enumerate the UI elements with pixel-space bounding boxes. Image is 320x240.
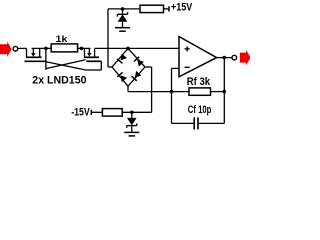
transistor Q1 gate bar — [25, 60, 46, 62]
wire bridge right — [145, 66, 152, 68]
node: source/gate junction left — [44, 47, 48, 51]
wire bridge right vertical — [151, 67, 153, 112]
wire resistor to bridge-right line — [122, 111, 151, 113]
input signal arrow (red) — [0, 41, 12, 57]
transistor Q2 source stub — [84, 48, 86, 57]
-15V terminal tick — [90, 110, 92, 115]
wire op-amp output — [217, 57, 232, 59]
bridge edge bottom-right — [128, 67, 145, 86]
ground (top clamp) — [115, 27, 130, 29]
input terminal — [13, 46, 18, 51]
wire bridge bottom stub — [127, 86, 129, 91]
bridge edge top-left — [112, 48, 128, 67]
node: source/gate junction right — [80, 47, 84, 51]
node: output — [223, 56, 227, 60]
bridge diode D3 (bottom-left) — [117, 72, 127, 82]
wire Q1 source to R 1k — [32, 47, 52, 49]
transistor Q1 drain corner — [26, 48, 28, 57]
ground (bottom clamp) — [124, 131, 139, 133]
bridge diode D2 (top-right) — [134, 57, 144, 67]
zener diode bottom — [131, 112, 133, 118]
svg-text:Cf 10p: Cf 10p — [188, 104, 212, 116]
svg-text:+15V: +15V — [171, 2, 193, 14]
wire clamp top horizontal — [108, 8, 140, 10]
node: zener bottom junction — [130, 111, 134, 115]
zener diode top — [122, 9, 124, 14]
bridge diode D4 (bottom-right) — [132, 71, 142, 81]
wire cross-coupling diagonal B — [46, 60, 86, 69]
bridge edge top-right — [128, 48, 145, 67]
resistor from -15V — [102, 109, 122, 117]
bridge diode D1 (top-left) — [117, 54, 127, 64]
resistor 1k — [51, 44, 77, 52]
wire inverting input jog — [172, 67, 180, 69]
bridge edge bottom-left — [112, 67, 128, 86]
node: inverting input junction — [170, 90, 174, 94]
svg-text:1k: 1k — [56, 34, 68, 45]
op-amp + label — [185, 48, 190, 50]
output terminal — [232, 55, 237, 60]
output signal arrow (red) — [240, 50, 251, 66]
resistor Rf 3k — [189, 88, 211, 95]
transistor Q2 drain corner — [94, 48, 96, 57]
wire resistor to +15V terminal — [164, 8, 169, 10]
svg-text:-15V: -15V — [71, 107, 90, 119]
wire bridge left to clamp line — [108, 66, 112, 68]
op-amp U1 — [179, 37, 217, 77]
svg-text:Rf 3k: Rf 3k — [187, 76, 211, 88]
wire gate-coupling vertical left — [45, 48, 47, 70]
wire bridge bottom to Rf — [128, 91, 189, 93]
wire inverting input vertical — [171, 68, 173, 123]
wire Cf right — [199, 122, 225, 124]
transistor Q1 channel bar — [26, 56, 42, 58]
op-amp - label — [185, 66, 190, 68]
node: zener top junction — [121, 7, 125, 11]
wire -15V to resistor — [91, 111, 102, 113]
transistor Q2 body arrow — [88, 48, 90, 53]
+15V terminal tick — [168, 6, 170, 11]
capacitor Cf 10p — [193, 117, 195, 129]
wire Q2 drain to op-amp + input — [95, 47, 179, 49]
svg-text:2x LND150: 2x LND150 — [32, 75, 86, 87]
wire cross-coupling diagonal A — [46, 62, 87, 70]
wire output feedback vertical — [223, 58, 225, 124]
wire Cf left — [172, 122, 194, 124]
wire input to Q1 drain — [18, 47, 27, 49]
resistor to +15V — [140, 5, 164, 12]
node: bridge top — [126, 47, 130, 51]
wire gate-coupling vertical right — [100, 61, 102, 70]
wire gate-coupling horizontal right — [86, 69, 101, 71]
wire clamp vertical — [107, 9, 109, 67]
transistor Q2 channel bar — [84, 56, 99, 58]
transistor Q2 gate bar — [86, 60, 101, 62]
transistor Q1 source stub — [39, 48, 41, 57]
node: feedback/output junction — [223, 90, 227, 94]
transistor Q1 body arrow — [32, 48, 34, 53]
wire R 1k to Q2 — [78, 47, 91, 49]
wire Rf to output vertical — [211, 91, 225, 93]
